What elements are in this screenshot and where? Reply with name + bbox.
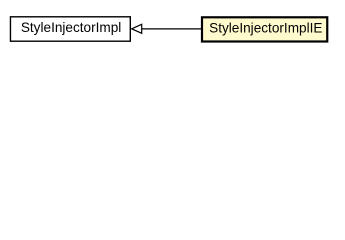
svg-text:StyleInjectorImplIE: StyleInjectorImplIE [209, 20, 322, 35]
svg-text:StyleInjectorImpl: StyleInjectorImpl [21, 20, 121, 35]
generalization arrow (hollow triangle) [132, 24, 142, 33]
class box StyleInjectorImplIE [202, 17, 327, 41]
wire [142, 28, 202, 30]
class box StyleInjectorImpl [10, 17, 130, 41]
